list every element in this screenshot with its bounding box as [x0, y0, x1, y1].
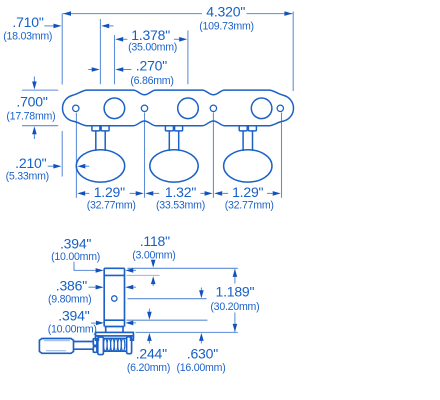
svg-text:(9.80mm): (9.80mm) [48, 293, 91, 305]
svg-text:.394": .394" [60, 235, 91, 251]
svg-text:4.320": 4.320" [206, 4, 245, 20]
side view extension lines [127, 268, 238, 332]
svg-text:.386": .386" [56, 278, 87, 294]
dimension .118 inch post cap height [132, 233, 175, 286]
dimension 1.189 inch overall height [210, 269, 259, 332]
svg-text:1.32": 1.32" [165, 184, 196, 200]
svg-text:(3.00mm): (3.00mm) [132, 249, 175, 261]
svg-text:.244": .244" [136, 345, 167, 361]
svg-text:(10.00mm): (10.00mm) [48, 324, 97, 336]
svg-text:.700": .700" [16, 94, 47, 110]
svg-text:(32.77mm): (32.77mm) [225, 199, 274, 211]
svg-text:(18.03mm): (18.03mm) [3, 31, 52, 43]
dimension .630 inch hole center to plate [177, 288, 226, 374]
string post hole 1 [104, 98, 125, 119]
tuner button 1 with shaft and gear tabs [76, 126, 124, 182]
svg-text:.630": .630" [187, 345, 218, 361]
dimension .710 inch plate edge to button center [3, 14, 113, 84]
mounting screw hole 4 [277, 105, 283, 111]
string post hole 3 [251, 98, 272, 119]
svg-text:1.29": 1.29" [94, 184, 125, 200]
svg-text:(109.73mm): (109.73mm) [199, 21, 254, 33]
mounting screw hole 1 [73, 105, 79, 111]
tuner button 2 with shaft and gear tabs [150, 126, 198, 182]
dimension .700 inch plate width [6, 77, 58, 140]
button shaft [74, 342, 94, 350]
string post hole 2 [178, 98, 199, 119]
svg-text:(32.77mm): (32.77mm) [87, 199, 136, 211]
dimension 1.32 inch middle screw spacing [145, 184, 212, 212]
mounting screw hole 2 [141, 105, 147, 111]
svg-text:.210": .210" [15, 155, 46, 171]
svg-text:.270": .270" [136, 58, 167, 74]
dimension 4.320 inch overall length [62, 4, 293, 91]
svg-text:.394": .394" [58, 308, 89, 324]
worm gear coil [103, 338, 126, 351]
svg-text:1.29": 1.29" [232, 184, 263, 200]
side view: mounting plate edge-on [96, 332, 134, 340]
dimension .394 inch lower boss diameter [48, 308, 136, 336]
dimension .270 inch button-to-post offset [88, 58, 173, 87]
mounting screw hole 3 [210, 105, 216, 111]
svg-text:(17.78mm): (17.78mm) [6, 110, 55, 122]
worm gear housing: washer and brackets [93, 337, 131, 355]
dimension .394 inch post top diameter [51, 235, 136, 272]
svg-text:.710": .710" [12, 14, 43, 30]
svg-text:(5.33mm): (5.33mm) [6, 170, 49, 182]
svg-text:(30.20mm): (30.20mm) [210, 301, 259, 313]
dimension 1.29 inch left screw spacing [77, 184, 144, 212]
side view: string post [104, 268, 124, 332]
svg-text:1.378": 1.378" [131, 27, 170, 43]
dimension .386 inch post diameter [48, 278, 136, 306]
svg-text:(35.00mm): (35.00mm) [128, 42, 177, 54]
dimension .210 inch plate edge to button edge [6, 131, 90, 182]
svg-text:(16.00mm): (16.00mm) [177, 362, 226, 374]
tuner plate outline, top view [63, 90, 294, 126]
dimension 1.378 inch post spacing [115, 27, 188, 85]
screw-hole extension lines for bottom dimensions [76, 113, 281, 198]
svg-text:(33.53mm): (33.53mm) [156, 199, 205, 211]
svg-text:1.189": 1.189" [215, 284, 254, 300]
svg-text:(6.86mm): (6.86mm) [130, 75, 173, 87]
svg-text:(10.00mm): (10.00mm) [51, 251, 100, 263]
tuner button, side view [39, 339, 73, 354]
tuner button 3 with shaft and gear tabs [224, 126, 272, 182]
string hole in post [112, 296, 117, 301]
svg-text:.118": .118" [140, 233, 170, 249]
dimension 1.29 inch right screw spacing [214, 184, 281, 212]
dimension .244 inch boss height [127, 309, 170, 374]
svg-text:(6.20mm): (6.20mm) [127, 362, 170, 374]
